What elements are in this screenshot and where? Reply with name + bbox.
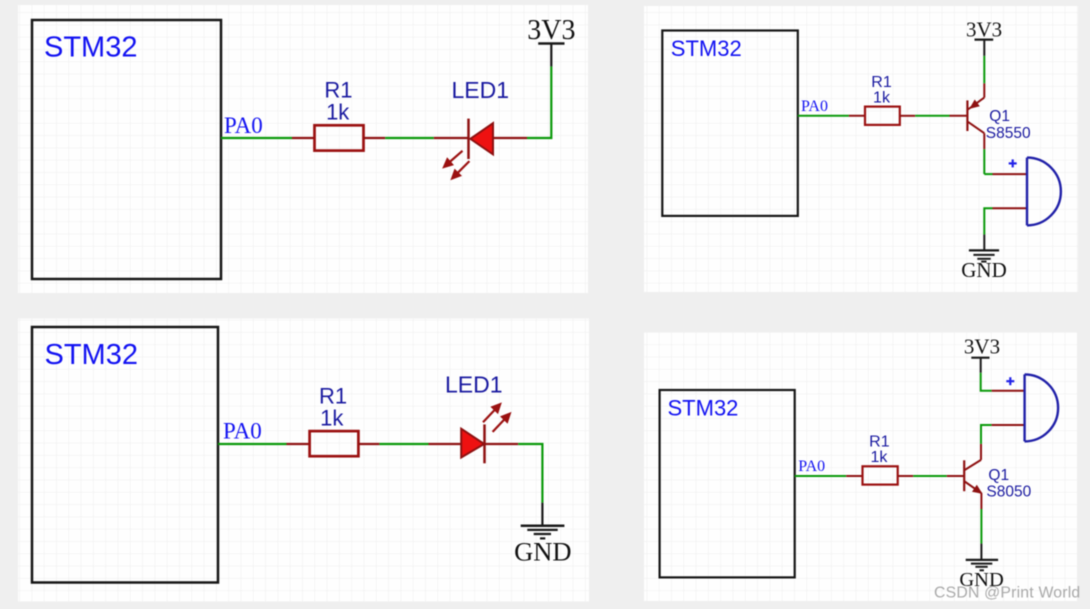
svg-text:PA0: PA0: [801, 98, 828, 115]
svg-text:GND: GND: [961, 258, 1007, 282]
svg-text:Q1: Q1: [988, 467, 1009, 484]
svg-text:LED1: LED1: [452, 77, 510, 103]
svg-text:STM32: STM32: [668, 396, 739, 421]
svg-text:LED1: LED1: [445, 372, 503, 398]
svg-text:1k: 1k: [320, 406, 344, 431]
svg-text:Q1: Q1: [989, 108, 1010, 125]
svg-text:GND: GND: [514, 537, 571, 567]
svg-text:PA0: PA0: [798, 458, 825, 475]
svg-text:1k: 1k: [326, 99, 350, 124]
svg-text:1k: 1k: [870, 449, 888, 466]
svg-text:S8050: S8050: [986, 483, 1031, 500]
svg-text:R1: R1: [869, 434, 890, 451]
svg-text:R1: R1: [871, 74, 892, 91]
svg-text:PA0: PA0: [224, 113, 263, 138]
svg-text:3V3: 3V3: [966, 18, 1002, 42]
svg-text:STM32: STM32: [44, 32, 137, 64]
svg-text:3V3: 3V3: [527, 15, 575, 46]
svg-text:PA0: PA0: [223, 419, 262, 444]
svg-text:CSDN @Print World: CSDN @Print World: [934, 585, 1080, 602]
svg-text:3V3: 3V3: [964, 335, 1000, 359]
svg-text:1k: 1k: [873, 89, 891, 106]
svg-text:STM32: STM32: [671, 36, 742, 61]
svg-text:STM32: STM32: [45, 339, 138, 371]
svg-text:S8550: S8550: [986, 125, 1031, 142]
